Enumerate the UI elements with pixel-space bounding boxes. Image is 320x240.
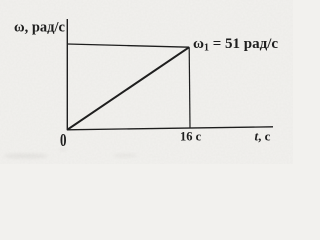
paper background xyxy=(0,0,293,164)
scan noise texture xyxy=(0,0,293,164)
diagonal omega(t) line xyxy=(68,47,190,129)
faint scan smudge bottom-middle xyxy=(113,154,137,158)
faint scan smudge bottom-left xyxy=(4,153,48,158)
faint scan speckle above origin label xyxy=(59,149,67,152)
x-axis xyxy=(67,127,273,130)
vertical line at t=16c xyxy=(188,47,191,127)
y-axis xyxy=(66,19,68,130)
top horizontal line at omega1 level xyxy=(67,44,189,47)
